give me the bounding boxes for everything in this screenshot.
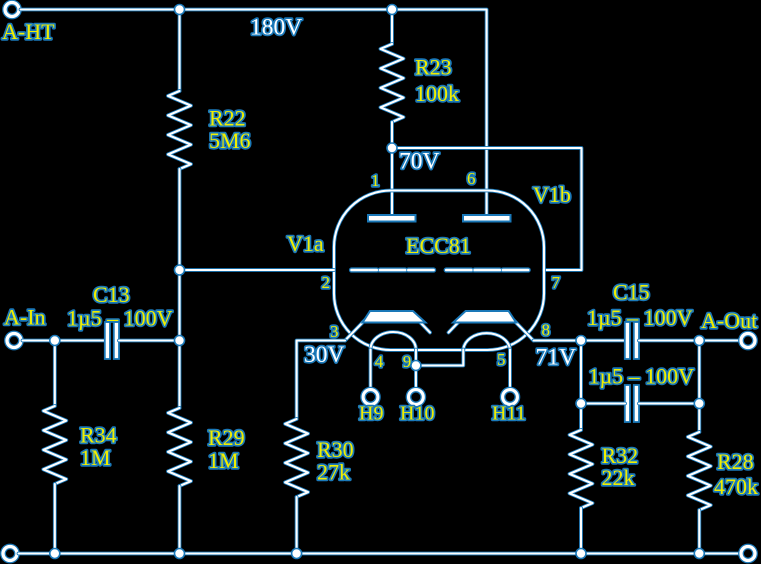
svg-text:R29: R29 [208, 425, 245, 450]
svg-text:9: 9 [403, 352, 412, 371]
svg-text:1M: 1M [80, 445, 111, 470]
terminal A-In [7, 334, 21, 348]
wire H10 drop [414, 366, 418, 389]
node pin 9 junction [411, 361, 421, 371]
svg-text:C15: C15 [613, 280, 650, 305]
terminal ground left [3, 547, 17, 561]
svg-text:3: 3 [330, 322, 339, 341]
node ground R28 [694, 549, 704, 559]
svg-text:V1b: V1b [533, 182, 571, 207]
svg-text:70V: 70V [399, 149, 440, 175]
wire heater pin 4 drop [369, 350, 373, 389]
svg-text:22k: 22k [602, 465, 635, 490]
wire R28 bottom stub [697, 510, 701, 554]
svg-text:A-In: A-In [4, 305, 46, 330]
svg-text:R23: R23 [415, 55, 452, 80]
wire R29 top stub [178, 341, 182, 409]
wire R34 top stub [53, 341, 57, 407]
svg-text:C13: C13 [93, 282, 130, 307]
wire R22 bottom to grid node [178, 169, 182, 270]
svg-text:R22: R22 [209, 106, 246, 131]
node R32/C16 junction top [576, 336, 586, 346]
wire R23 top stub [390, 10, 394, 45]
wire pin 9 link to second filament [416, 350, 463, 366]
wire R29 bottom stub [178, 486, 182, 554]
svg-text:27k: 27k [317, 460, 350, 485]
node HT/R23 junction [387, 5, 397, 15]
cathode V1b inner stub [449, 319, 463, 333]
terminal A-HT [5, 3, 19, 17]
svg-text:H11: H11 [492, 403, 526, 425]
svg-text:6: 6 [467, 169, 476, 188]
tube V1 envelope [334, 191, 544, 351]
svg-text:7: 7 [552, 273, 561, 292]
wire pin 1 anode lead [390, 148, 394, 215]
svg-text:71V: 71V [536, 345, 577, 371]
wire heater pin 5 drop [508, 350, 512, 389]
resistor R28 [688, 432, 711, 510]
resistor R23 [381, 44, 404, 122]
svg-text:V1a: V1a [287, 231, 324, 256]
resistor R29 [168, 408, 191, 486]
wire A-Out column to R28 [697, 341, 701, 433]
resistor R30 [285, 419, 308, 497]
svg-text:R34: R34 [80, 423, 117, 448]
terminal H9 [363, 390, 378, 405]
wire grid pin 2 lead [180, 268, 335, 272]
node C16 right junction [694, 399, 704, 409]
svg-text:1µ5 – 100V: 1µ5 – 100V [67, 306, 173, 331]
node HT/R22 junction [175, 5, 185, 15]
node C13/grid junction [175, 336, 185, 346]
terminal ground right [741, 547, 755, 561]
svg-text:1µ5 – 100V: 1µ5 – 100V [587, 305, 693, 330]
wire A-In to C13 [23, 339, 106, 343]
terminal H10 [409, 390, 424, 405]
node output/R28 junction [694, 336, 704, 346]
wire 70V node to V1b grid pin 7 [392, 148, 582, 270]
wire R23 bottom stub [390, 122, 394, 148]
svg-text:5M6: 5M6 [209, 128, 251, 153]
node ground R30 [292, 549, 302, 559]
cathode V1a lead flank [345, 319, 367, 341]
wire C16 left lead [581, 402, 625, 406]
svg-text:A-HT: A-HT [2, 19, 55, 44]
heater filament V1b arc [463, 333, 510, 349]
svg-text:8: 8 [542, 321, 551, 340]
anode plate V1a [368, 215, 416, 222]
svg-text:1: 1 [371, 171, 380, 190]
wire C15 to A-Out [639, 339, 741, 343]
node input/R34 junction [50, 336, 60, 346]
resistor R22 [168, 91, 191, 169]
wire pin 3 to R30 [297, 341, 345, 420]
svg-text:R30: R30 [317, 437, 354, 462]
heater filament V1a arc [371, 332, 416, 350]
wire R32 node to C16 [579, 341, 583, 404]
svg-text:H10: H10 [400, 403, 434, 425]
terminal H11 [503, 390, 518, 405]
anode plate V1b [463, 215, 511, 222]
wire C16 right lead [639, 402, 699, 406]
resistor R34 [43, 406, 66, 484]
svg-text:180V: 180V [250, 15, 302, 41]
wire R32 bottom stub [579, 508, 583, 554]
grid V1a dashed electrode [352, 267, 434, 272]
node 70V junction [387, 143, 397, 153]
svg-text:2: 2 [322, 273, 331, 292]
cathode V1b lead flank [512, 319, 534, 341]
svg-text:ECC81: ECC81 [406, 233, 471, 258]
svg-text:470k: 470k [714, 474, 758, 499]
svg-text:1M: 1M [208, 448, 239, 473]
cathode V1b [453, 311, 516, 323]
wire R34 bottom stub [53, 484, 57, 554]
svg-text:100k: 100k [415, 81, 459, 106]
svg-text:H9: H9 [359, 403, 383, 425]
capacitor C16 1u5 [625, 385, 630, 422]
wire R22 top stub [178, 10, 182, 92]
capacitor C15 [625, 322, 630, 359]
wire pin 8 to C15 [534, 339, 626, 343]
wire R30 bottom stub [295, 497, 299, 554]
cathode V1a inner stub [417, 319, 431, 333]
svg-text:5: 5 [497, 350, 506, 369]
wire C13 to grid node [119, 339, 180, 343]
svg-text:30V: 30V [304, 342, 345, 368]
svg-text:R28: R28 [717, 449, 754, 474]
wire HT rail and pin 6 anode drop [21, 10, 487, 216]
node grid V1a junction [175, 265, 185, 275]
wire ground rail [19, 552, 740, 556]
terminal A-Out [741, 334, 755, 348]
node ground R29 [175, 549, 185, 559]
node ground R32 [576, 549, 586, 559]
node C16 left junction [576, 399, 586, 409]
wire heater pin 9 drop [414, 350, 418, 366]
svg-text:A-Out: A-Out [701, 308, 757, 333]
grid V1b dashed electrode [446, 267, 528, 272]
node ground R34 [50, 549, 60, 559]
cathode V1a [363, 311, 426, 323]
wire R32 top stub [579, 404, 583, 431]
wire grid column to input node [178, 270, 182, 341]
svg-text:4: 4 [375, 352, 384, 371]
svg-text:1µ5 – 100V: 1µ5 – 100V [589, 364, 695, 389]
capacitor C13 [105, 322, 110, 359]
resistor R32 [570, 430, 593, 508]
